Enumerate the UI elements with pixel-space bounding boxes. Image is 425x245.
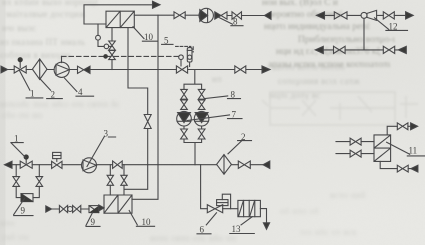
valve vertical lower on HX1 branch [109, 50, 116, 59]
pump 4 [54, 62, 69, 77]
wire bypass left drop [15, 165, 17, 177]
label 2 (left) leader [40, 79, 62, 99]
svg-text:1: 1 [30, 89, 35, 99]
label 6 leader [197, 213, 217, 234]
wire bypass bottom [16, 186, 39, 197]
valve heater input bottom [350, 150, 361, 157]
label 2 (right) leader [228, 141, 252, 154]
faint ghost text top-right [262, 0, 338, 8]
wire jog riser to bottom line [147, 129, 149, 165]
actuator capsule 5 [187, 48, 192, 62]
valve suction branch A upper [181, 89, 188, 99]
valve right of filter [238, 161, 250, 168]
wire bottom main line [12, 164, 263, 166]
arrow inflow return right [398, 46, 406, 53]
wire elevator mixing drop [363, 18, 365, 50]
valve on HX1 outlet [174, 12, 185, 19]
svg-text:11: 11 [409, 146, 418, 156]
valve on bottom line after pump 3 [113, 161, 123, 168]
valve bottom row left [59, 206, 67, 213]
valve discharge branch B [198, 129, 205, 139]
regulator 9 (right) [89, 206, 99, 213]
ball valve 1 (bottom) [20, 161, 32, 168]
regulator 9 (left) [21, 194, 33, 202]
svg-text:7: 7 [232, 109, 237, 119]
wire HX2 right riser [123, 165, 125, 176]
valve suction branch A lower [181, 100, 188, 109]
label 8 (top) leader [219, 18, 243, 26]
heat exchanger 10 (bottom) [104, 195, 132, 213]
valve bottom row right [73, 206, 81, 213]
valve elevator line left [334, 12, 347, 19]
wire HX1 right bottom jog [128, 28, 148, 115]
faint bleed-through diagram right middle [0, 0, 1, 1]
label 8 leader [205, 96, 241, 99]
faint ghost rows middle / bottom [268, 60, 390, 70]
wire heater 11 input top [336, 141, 374, 143]
svg-text:10: 10 [142, 217, 152, 227]
label 12 leader [375, 18, 408, 31]
arrow inflow heater bottom [411, 165, 418, 172]
arrow outflow left bottom [5, 161, 13, 168]
mud tank 13 [238, 200, 261, 216]
arrow inflow right of filter [263, 161, 270, 168]
svg-text:9: 9 [91, 217, 96, 227]
wire main middle line [8, 69, 263, 71]
label 1 (top) leader [20, 71, 43, 98]
pressure regulator on bottom line [53, 152, 61, 158]
label 4 leader [65, 78, 94, 96]
valve heater input top [350, 138, 361, 145]
wire HX2 right outlet to riser [132, 165, 158, 200]
check valve after pump 4 [78, 66, 84, 73]
valve bypass left [13, 177, 20, 187]
svg-text:2: 2 [51, 89, 56, 99]
wire return line [323, 49, 398, 51]
arrow outflow heater top [411, 123, 418, 130]
svg-text:4: 4 [78, 87, 83, 97]
label 10 (top) leader [133, 27, 158, 42]
valve suction branch B upper [198, 89, 205, 99]
arrow outflow right middle [262, 66, 270, 73]
valve on middle line right [235, 66, 246, 73]
valve vertical on jog riser [144, 115, 151, 129]
svg-text:10: 10 [144, 32, 154, 42]
label 5 underline [162, 43, 173, 45]
wire top supply arrow line [84, 5, 153, 24]
label 9 (right) flag [86, 213, 100, 227]
pump 3 [82, 158, 97, 173]
svg-text:13: 13 [232, 224, 242, 234]
pump 8 (top circulation) [199, 8, 213, 22]
valve return line right [383, 46, 394, 53]
wire bottom row [52, 208, 89, 210]
drain cock upper [97, 24, 99, 35]
arrow inflow elevator line left [317, 12, 325, 19]
arrow inflow left middle [1, 66, 8, 73]
wire heater outlet bottom [380, 161, 411, 168]
label 13 leader [230, 217, 255, 234]
wire HX1 outlet right [134, 14, 174, 16]
label 3 leader [87, 136, 116, 166]
meter circle bottom row [68, 207, 73, 212]
svg-text:1: 1 [14, 134, 19, 144]
dashed box around 5 [176, 46, 194, 52]
label 10 (bottom) leader [129, 211, 154, 227]
wire outlet of 13 [260, 209, 266, 223]
valve HX2 right [121, 175, 127, 185]
wire HX2 left riser [109, 165, 111, 176]
arrow inflow bottom row [46, 206, 52, 212]
arrow inflow right top [265, 12, 272, 20]
filter 2 (left) [32, 59, 47, 79]
svg-text:12: 12 [389, 22, 398, 32]
svg-text:5: 5 [164, 36, 169, 46]
label 9 (left) flag [14, 199, 33, 216]
node impulse junction [103, 54, 108, 59]
check valve after pump 8 [215, 12, 221, 19]
pump 7 branch A [177, 111, 192, 126]
wire riser long [157, 15, 159, 165]
arrow outflow elevator line right [406, 12, 414, 19]
valve after check valve [232, 12, 242, 19]
label 7 leader [187, 115, 242, 121]
wire HX1 left bottom branch [111, 28, 113, 41]
arrow supply out top [153, 1, 161, 8]
wire branch to main line [111, 60, 113, 70]
valve vertical upper on HX1 branch [109, 41, 116, 50]
valve HX2 left [107, 175, 113, 185]
svg-text:3: 3 [104, 128, 109, 138]
valve discharge branch A [181, 129, 188, 139]
wire to pump 8 [185, 14, 199, 16]
arrow into HX2 [99, 205, 104, 211]
water heater 11 [374, 135, 391, 162]
svg-text:6: 6 [200, 225, 205, 235]
valve elevator line right [383, 12, 394, 19]
valve suction branch B lower [198, 100, 205, 109]
wire heater 11 input bottom [336, 153, 374, 155]
valve heater outlet bottom [397, 165, 408, 172]
svg-text:2: 2 [241, 132, 246, 142]
arrow outflow down [263, 223, 269, 229]
wire elevator top line [325, 14, 406, 16]
wire drop to regulator 6 [201, 165, 208, 209]
wire to right end [227, 15, 265, 17]
valve heater outlet top [397, 123, 408, 130]
valve bypass right [36, 177, 43, 187]
wire bypass right drop [38, 165, 40, 177]
heat exchanger 10 (top) [106, 11, 134, 27]
svg-text:8: 8 [231, 90, 236, 100]
elevator 12 [361, 12, 367, 18]
svg-text:8: 8 [233, 17, 238, 27]
sensor circle 5 [179, 55, 184, 60]
label 1 (bottom) leader [11, 143, 26, 158]
label 11 leader [387, 142, 425, 156]
valve return line left [334, 46, 346, 53]
regulator valve 6 [207, 205, 222, 213]
drain cock lower [98, 40, 104, 46]
ball valve 1 (top line) [14, 66, 26, 73]
svg-text:9: 9 [21, 206, 26, 216]
filter 2 (right) [217, 155, 232, 175]
wire pump group suction [184, 70, 202, 90]
pump 7 branch B [194, 111, 209, 126]
wire heater outlet top [387, 126, 410, 135]
dashed impulse line from pump 4 [61, 56, 63, 62]
arrow inflow return line left [315, 46, 323, 53]
regulator valve 5 body [176, 66, 187, 73]
faint ghost text top-left [2, 0, 99, 7]
wire pump group discharge merge [184, 126, 202, 165]
